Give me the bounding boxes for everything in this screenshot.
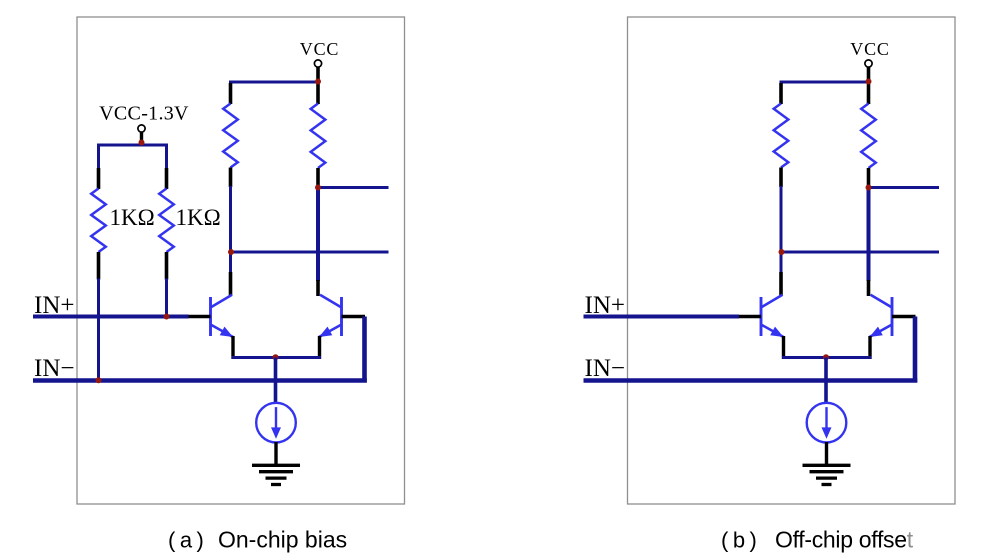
wire VCC rail horizontal xyxy=(780,81,869,84)
wire bias right bottom xyxy=(165,279,168,319)
svg-text:1KΩ: 1KΩ xyxy=(110,205,155,230)
transistor Q1b collector xyxy=(761,295,783,308)
wire base lead Q2a xyxy=(342,315,366,319)
resistor load right xyxy=(311,104,326,169)
wire left column mid xyxy=(229,186,232,273)
wire emitter join xyxy=(232,356,322,359)
wire emitter join xyxy=(782,356,872,359)
wire output 1 xyxy=(869,186,940,189)
wire bias left bottom xyxy=(97,279,100,383)
wire bias left top xyxy=(97,144,100,170)
wire resistor lead xyxy=(316,103,320,104)
svg-text:VCC: VCC xyxy=(300,39,339,59)
node output 1 junction xyxy=(866,185,872,191)
wire IN+ xyxy=(33,315,189,319)
transistor Q2a emitter arrow xyxy=(319,325,342,338)
svg-text:1KΩ: 1KΩ xyxy=(176,205,221,230)
wire VCC lead xyxy=(867,67,871,104)
current source I1b xyxy=(807,403,847,443)
wire tail current xyxy=(824,358,828,404)
resistor load right xyxy=(861,104,876,169)
wire IN- riser to Q2 base xyxy=(913,317,918,383)
current source I1a xyxy=(256,403,296,443)
wire source to ground xyxy=(274,442,277,465)
transistor Q1a emitter arrow xyxy=(211,325,234,338)
wire resistor lead xyxy=(779,83,783,104)
wire tail current xyxy=(274,358,278,404)
node emitter junction xyxy=(273,354,279,360)
svg-text:Off-chip offset: Off-chip offset xyxy=(775,527,914,553)
wire IN- riser to Q2 base xyxy=(362,317,367,383)
wire collector lead right xyxy=(316,280,320,296)
svg-text:(b): (b) xyxy=(721,528,761,553)
transistor Q2b collector xyxy=(871,295,893,308)
wire collector lead right xyxy=(867,280,871,296)
wire resistor lead xyxy=(229,168,233,188)
wire resistor lead xyxy=(867,103,871,104)
transistor Q2a collector xyxy=(320,295,342,308)
transistor Q1a base bar xyxy=(209,297,212,336)
wire emitter lead Q2a xyxy=(318,336,321,359)
resistor load left xyxy=(774,104,789,168)
wire left column top xyxy=(229,81,232,85)
wire resistor lead xyxy=(867,168,871,188)
transistor Q2a base bar xyxy=(340,297,343,336)
wire VCC-1.3V lead xyxy=(140,132,143,146)
node VCC junction xyxy=(866,79,872,85)
wire VCC lead xyxy=(316,67,320,104)
node bias left to IN- xyxy=(96,377,102,383)
wire emitter lead Q1b xyxy=(782,336,785,359)
wire collector lead left xyxy=(229,272,233,296)
node output 2 junction xyxy=(779,249,785,255)
svg-text:IN−: IN− xyxy=(34,355,74,382)
node emitter junction xyxy=(823,354,829,360)
wire right column mid xyxy=(316,187,320,281)
svg-text:On-chip bias: On-chip bias xyxy=(218,527,347,553)
wire resistor lead xyxy=(229,83,233,104)
wire base lead Q1a xyxy=(188,315,211,319)
wire resistor lead xyxy=(97,252,101,280)
node bias right to IN+ xyxy=(164,314,170,320)
wire resistor lead xyxy=(779,168,783,188)
wire resistor lead xyxy=(97,168,101,189)
wire emitter lead Q2b xyxy=(868,336,871,359)
transistor Q1b emitter arrow xyxy=(761,325,784,338)
wire base lead Q2b xyxy=(892,315,916,319)
wire left column top xyxy=(780,81,783,85)
wire right column mid xyxy=(867,187,871,281)
wire output 1 xyxy=(318,186,389,189)
wire IN- xyxy=(584,378,918,383)
node output 2 junction xyxy=(228,249,234,255)
resistor R bias right 1K xyxy=(159,189,174,253)
wire resistor lead xyxy=(165,168,169,189)
svg-text:(a): (a) xyxy=(168,528,208,553)
svg-text:IN−: IN− xyxy=(585,355,625,382)
wire resistor lead xyxy=(316,168,320,188)
wire IN- xyxy=(33,378,367,383)
wire collector lead left xyxy=(779,272,783,296)
wire VCC rail horizontal xyxy=(229,81,318,84)
wire source to ground xyxy=(825,442,828,465)
transistor Q2b base bar xyxy=(891,297,894,336)
wire bias right top xyxy=(165,144,168,170)
resistor R bias left 1K xyxy=(91,189,106,253)
wire base lead Q1b xyxy=(739,315,762,319)
svg-text:VCC-1.3V: VCC-1.3V xyxy=(99,103,189,125)
transistor Q1b base bar xyxy=(760,297,763,336)
wire bias rail xyxy=(99,144,168,147)
wire IN+ xyxy=(584,315,740,319)
wire left column mid xyxy=(780,186,783,273)
wire emitter lead Q1a xyxy=(231,336,234,359)
wire output 2 xyxy=(231,251,389,254)
ground b xyxy=(803,464,851,467)
node bias junction xyxy=(139,140,145,146)
node VCC junction xyxy=(315,79,321,85)
transistor Q1a collector xyxy=(211,295,233,308)
svg-text:VCC: VCC xyxy=(850,39,889,59)
ground a xyxy=(252,464,300,467)
transistor Q2b emitter arrow xyxy=(870,325,893,338)
wire resistor lead xyxy=(165,252,169,280)
wire output 2 xyxy=(782,251,940,254)
resistor load left xyxy=(223,104,238,168)
node output 1 junction xyxy=(315,185,321,191)
